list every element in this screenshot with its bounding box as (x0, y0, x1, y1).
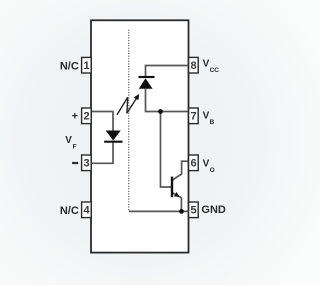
svg-text:5: 5 (190, 205, 196, 217)
svg-text:7: 7 (190, 111, 196, 123)
svg-text:3: 3 (83, 158, 89, 170)
svg-text:1: 1 (83, 60, 89, 72)
svg-text:O: O (210, 167, 215, 174)
svg-text:2: 2 (83, 111, 89, 123)
svg-text:V: V (203, 158, 210, 169)
svg-text:GND: GND (201, 204, 226, 216)
svg-text:B: B (210, 119, 215, 126)
svg-text:V: V (203, 58, 210, 69)
svg-text:V: V (65, 135, 72, 146)
svg-text:CC: CC (210, 67, 220, 74)
svg-text:6: 6 (190, 158, 196, 170)
svg-text:8: 8 (190, 60, 196, 72)
svg-text:+: + (72, 110, 78, 122)
svg-text:F: F (73, 143, 77, 150)
svg-text:N/C: N/C (60, 60, 79, 72)
svg-text:N/C: N/C (60, 205, 79, 217)
svg-text:V: V (203, 111, 210, 122)
svg-text:4: 4 (83, 205, 90, 217)
